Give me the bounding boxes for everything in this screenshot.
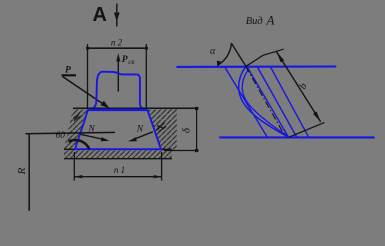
angle arc at lower-left corner: [69, 140, 90, 149]
svg-text:п 2: п 2: [111, 37, 123, 47]
svg-text:А: А: [93, 4, 107, 26]
b extension line 1: [246, 49, 284, 66]
blue slant lines: [225, 67, 309, 138]
weld top edge (blue): [88, 109, 148, 111]
backing strip: [64, 149, 172, 158]
svg-text:R: R: [16, 167, 28, 175]
svg-text:св: св: [128, 58, 134, 66]
bottom surface line (blue): [219, 136, 374, 138]
arrowheads n1: [74, 175, 82, 178]
svg-text:Р: Р: [65, 66, 71, 76]
svg-text:60: 60: [56, 131, 66, 141]
svg-text:α: α: [210, 46, 216, 57]
dimension n2: [88, 44, 147, 108]
tick marks n2: [86, 47, 89, 50]
alpha angle line: [231, 43, 246, 66]
weld trapezoid (blue): [75, 110, 161, 149]
svg-text:Р: Р: [122, 55, 128, 65]
R dimension line: [28, 134, 30, 211]
weld bead (blue): [90, 72, 144, 110]
svg-text:А: А: [266, 12, 275, 27]
svg-text:δ: δ: [181, 127, 193, 133]
plate surface line: [73, 107, 199, 109]
view direction arrow: [114, 4, 120, 27]
force Psv arrow: [116, 53, 120, 91]
svg-text:N: N: [136, 125, 144, 135]
weld pool outline (blue): [239, 66, 289, 137]
bevel mark left slant: [74, 113, 81, 122]
left plate hatch: [64, 109, 88, 149]
b extension line 2: [289, 122, 325, 137]
thickness dimension (delta): [164, 108, 199, 150]
bevel mark right slant: [157, 123, 167, 133]
alpha arc: [218, 43, 232, 65]
svg-text:п 1: п 1: [114, 165, 125, 175]
top surface line (blue): [177, 65, 337, 68]
svg-text:N: N: [87, 125, 95, 135]
tick marks delta: [195, 107, 198, 110]
leader line 60: [25, 132, 115, 133]
axis dash-dot: [246, 66, 285, 135]
dimension n1: [74, 152, 161, 181]
right plate hatch: [147, 109, 177, 149]
svg-text:Вид: Вид: [246, 16, 263, 27]
force P arrow: [62, 75, 110, 108]
b dimension line: [276, 51, 321, 122]
